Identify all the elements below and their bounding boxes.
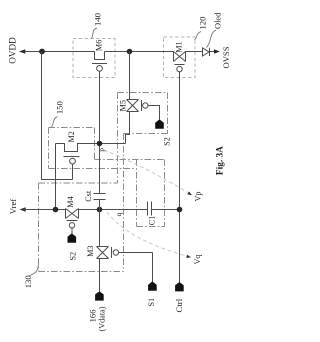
svg-text:140: 140 — [93, 12, 103, 26]
transistor M1 (X-box) — [174, 52, 186, 62]
M4 gate bar — [67, 220, 78, 222]
block 150 box — [49, 128, 95, 169]
M1 gate bubble — [177, 66, 182, 71]
svg-text:150: 150 — [55, 101, 65, 115]
wire M2 source to Vref — [55, 144, 57, 210]
M6 gate bar — [92, 63, 107, 65]
block 140 box — [73, 39, 115, 78]
svg-text:M4: M4 — [66, 196, 75, 207]
wire M5 gate to S2 — [148, 106, 160, 120]
signal S2 pentagon (M5) — [155, 119, 164, 128]
block 130 box — [39, 134, 124, 272]
signal Ctrl pentagon — [175, 282, 184, 291]
svg-text:Vq: Vq — [193, 254, 202, 264]
Vq arrowhead — [186, 255, 191, 258]
dash-dot rail between 150 box and C1 box — [49, 160, 165, 169]
block box around M5 — [118, 93, 168, 184]
wire q row — [79, 209, 148, 211]
wire vref row — [23, 209, 66, 211]
svg-text:Oled: Oled — [214, 12, 223, 29]
diode Oled — [203, 48, 210, 56]
node dot Vq — [177, 207, 183, 213]
svg-text:Fig. 3A: Fig. 3A — [215, 146, 225, 175]
svg-text:OVSS: OVSS — [221, 46, 231, 68]
transistor M3 (X-box vertical) — [97, 247, 109, 259]
svg-text:M5: M5 — [119, 100, 128, 111]
wire M6 gate down to node P and Cst — [99, 71, 101, 193]
wire down to M5 — [129, 52, 131, 100]
capacitor C1 box — [137, 160, 165, 227]
M4 gate stub — [71, 228, 73, 234]
M2 gate bubble — [70, 158, 76, 164]
wire q down to M3 — [99, 210, 101, 247]
wire M3 gate to S1 — [119, 253, 153, 282]
transistor M6 (staple PMOS) — [95, 52, 105, 60]
M2 gate bar — [64, 156, 80, 158]
svg-text:130: 130 — [23, 275, 33, 289]
M5 gate bubble — [143, 103, 148, 108]
wire M1 gate down to Ctrl — [179, 72, 181, 282]
wire M5 bottom to node P — [100, 112, 130, 144]
svg-text:M1: M1 — [175, 41, 184, 52]
M5 gate bar — [141, 100, 143, 111]
svg-text:C1: C1 — [148, 216, 157, 226]
svg-text:M6: M6 — [95, 40, 104, 51]
wire M1 to diode — [186, 51, 203, 53]
svg-text:Vp: Vp — [193, 191, 202, 201]
wire Cst bottom to q — [99, 200, 101, 210]
M4 gate bubble — [69, 223, 74, 228]
svg-text:OVDD: OVDD — [8, 37, 18, 64]
M3 gate bar — [111, 247, 113, 258]
capacitor Cst — [94, 194, 106, 200]
wire M3 down to Vdata — [99, 259, 101, 292]
svg-text:(Vdata): (Vdata) — [98, 306, 107, 331]
wire top rail OVDD row — [23, 51, 95, 53]
wire OVDD drop to M2 gate — [42, 52, 73, 180]
svg-text:S2: S2 — [69, 252, 78, 261]
node dot OVDD — [39, 49, 45, 55]
M6 gate bubble — [97, 66, 103, 72]
svg-text:S1: S1 — [147, 298, 156, 307]
svg-text:Vref: Vref — [8, 199, 18, 215]
signal S1 pentagon — [148, 281, 157, 290]
node dot M5 branch — [127, 49, 133, 55]
svg-text:Ctrl: Ctrl — [174, 298, 184, 312]
signal S2 pentagon (M4) — [68, 233, 77, 242]
vref arrow — [20, 207, 26, 212]
transistor M2 (staple PMOS) — [56, 144, 100, 152]
capacitor C1 — [148, 202, 152, 216]
Vp leader dashed — [104, 150, 190, 194]
Vq leader dashed — [107, 212, 188, 257]
svg-text:M2: M2 — [67, 131, 76, 142]
node dot q — [97, 207, 103, 213]
svg-text:M3: M3 — [86, 246, 95, 257]
Vp arrowhead — [187, 192, 192, 196]
node dot Vref — [53, 207, 59, 213]
svg-text:S2: S2 — [162, 137, 171, 146]
svg-text:120: 120 — [198, 16, 208, 30]
ovdd arrow — [19, 49, 25, 54]
ovss arrow — [214, 49, 220, 54]
transistor M4 (X-box) — [66, 209, 79, 219]
wire diode to OVSS — [210, 51, 215, 53]
signal Vdata pentagon — [95, 291, 104, 300]
transistor M5 (X-box vertical) — [127, 100, 139, 112]
M3 gate bubble — [113, 250, 118, 255]
wire M6 to M1 — [105, 51, 174, 53]
node dot P — [97, 141, 103, 147]
svg-text:Cst: Cst — [84, 190, 93, 202]
wire C1 to Ctrl line — [152, 209, 180, 211]
M1 gate bar — [175, 64, 185, 66]
block 120 box — [164, 37, 196, 78]
svg-text:q: q — [114, 212, 123, 216]
svg-text:166: 166 — [88, 309, 98, 323]
